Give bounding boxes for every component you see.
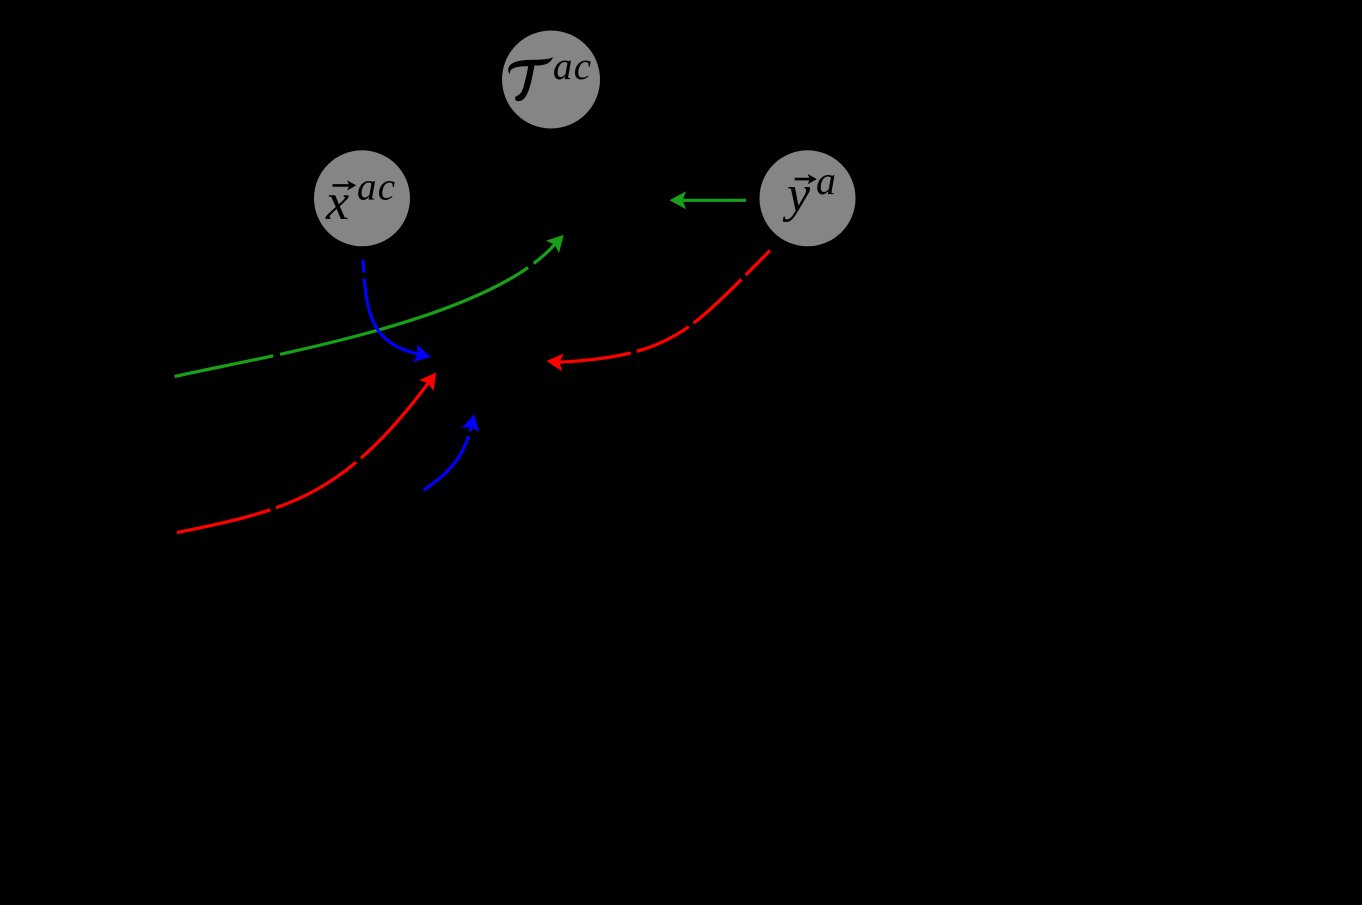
label: calligraphic T (508, 57, 553, 101)
arrow blue short dashed: from x^ac node curving down-right (363, 260, 431, 363)
node x^ac (left gray circle) (314, 150, 410, 246)
label: vector arrow over y (795, 178, 811, 181)
arrow red long curve: from bottom-left up to center (177, 373, 436, 533)
svg-text:ac: ac (553, 45, 592, 88)
arrow green long curve: from lower-left up to center-right (175, 235, 564, 377)
svg-text:x: x (325, 174, 349, 231)
node T^ac (top gray circle) (502, 31, 600, 129)
arrow green short: from y^a node pointing left (670, 191, 747, 209)
node y^a (right gray circle) (760, 150, 856, 246)
svg-text:ac: ac (357, 166, 396, 209)
svg-text:a: a (816, 158, 836, 203)
label: vector arrow over x (333, 184, 353, 187)
svg-text:y: y (782, 166, 811, 223)
arrow red dashed: from y^a node curving down-left (547, 251, 771, 372)
arrow blue short: from below curving up (424, 414, 480, 490)
